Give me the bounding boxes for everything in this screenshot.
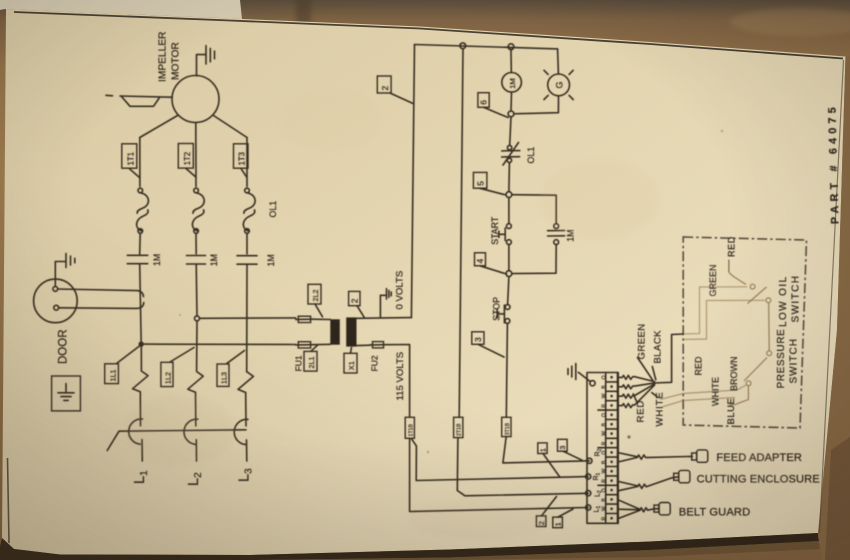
low oil switch LS2 (729, 273, 771, 351)
motor frame ground (197, 46, 215, 76)
bus wire lower to control transformer (144, 343, 296, 345)
transformer T1 secondary winding (346, 317, 356, 346)
printed border top (14, 12, 843, 59)
fuse FU1 upper (296, 316, 313, 322)
wire label 6 (478, 93, 508, 118)
wire pole2 down (195, 264, 198, 316)
wire door switch to line 1 upper (58, 289, 144, 297)
wire label 3T1B (502, 417, 511, 436)
wire start to junction (508, 245, 510, 271)
wire motor T2 lead (195, 123, 197, 187)
wire pole1 bottom (141, 440, 143, 462)
label WHITE wire (652, 392, 666, 427)
connector belt guard (654, 503, 670, 515)
wire pair cutting enclosure (618, 477, 678, 491)
wire label 1L1 (105, 346, 140, 384)
wire label 3 near strip (558, 439, 583, 460)
wire label 1 near R1 (538, 443, 560, 477)
fuse FU2 (370, 342, 386, 348)
pilot lamp G (544, 70, 573, 99)
auxiliary contact 1M (548, 224, 576, 245)
door switch ground (55, 254, 75, 287)
wire label 1T1B (405, 417, 414, 438)
label GREEN (637, 323, 653, 380)
wire green inside enclosure (683, 287, 747, 334)
paper specks (179, 130, 723, 453)
node rail coil tap (508, 44, 514, 50)
wire pole3 down (246, 264, 248, 372)
wire secondary 115V (357, 344, 371, 346)
wire lamp bottom (514, 96, 559, 114)
overload heater OL1 pole 2 (192, 188, 204, 233)
earth ground 0V (380, 289, 391, 318)
wire trio belt guard (618, 500, 659, 519)
wire junction to STOP (508, 277, 509, 305)
wire label 2T1B (454, 417, 463, 437)
disconnect operating linkage (107, 430, 246, 451)
terminal strip TB1 (587, 373, 618, 524)
wire OL1 to start junction (508, 163, 511, 192)
wire (139, 233, 142, 254)
wire label 1L2 (161, 348, 194, 387)
wire label 1T2 (178, 144, 196, 178)
wire pole3 bottom (246, 440, 248, 461)
pushbutton STOP (497, 305, 510, 324)
fuse FU1 lower (296, 342, 313, 348)
wire label 2 near transformer (349, 291, 365, 317)
wire label 1L3 (217, 351, 245, 387)
overload heater OL1 pole 1 (137, 188, 149, 233)
pressure switch enclosure dashed box (683, 237, 806, 428)
wire fuse to primary (313, 318, 331, 320)
wire label 2 top (377, 76, 413, 104)
terminal L1 (586, 505, 591, 510)
wire label 2L2 (308, 284, 323, 317)
contact 1M pole 2 (187, 254, 220, 266)
control rail 0V top (415, 45, 558, 49)
wire 1 to L1 terminal (410, 438, 589, 511)
node junction pole1 bus (139, 341, 144, 346)
wire label 1T3 (234, 144, 249, 178)
pale sheet sliver top-left (0, 0, 242, 19)
printed border left (8, 458, 10, 543)
bottom dark table edge (0, 533, 819, 560)
door interlock switch (34, 279, 78, 323)
wire red pigtail (618, 384, 655, 398)
wire door switch to line 1 lower (59, 303, 144, 309)
wire motor T3 lead (214, 116, 248, 187)
wire 3 to R2 terminal (503, 437, 590, 463)
pushbutton START (499, 198, 511, 245)
terminal strip screws (606, 376, 618, 520)
label RED wire (633, 394, 646, 423)
bus wire upper to control transformer (200, 317, 296, 319)
wire pole2 bottom (195, 440, 197, 461)
disconnect arc pole 3 (234, 419, 248, 444)
wire pair feed adapter (618, 453, 692, 462)
label X1 (344, 348, 357, 374)
label RED low oil (727, 236, 737, 272)
connector feed adapter (692, 450, 708, 462)
terminal strip letters (598, 375, 607, 520)
transformer T1 primary winding (330, 319, 340, 344)
node junction pole2 bus (195, 316, 200, 321)
wire black inside enclosure (683, 300, 765, 339)
right wood beyond paper (818, 56, 850, 560)
wire coil to rail (510, 50, 512, 73)
label BLACK (652, 330, 663, 380)
terminal R2 (587, 458, 592, 463)
wire 2 to L2 terminal (457, 438, 588, 496)
overload contact OL1 (502, 143, 520, 166)
breaker zigzag pole 2 (188, 321, 203, 426)
0V rail vertical (411, 45, 414, 318)
terminal R1 (586, 474, 591, 479)
wire rail to lamp (557, 49, 560, 74)
wood highlight top right (730, 8, 850, 36)
strip ground terminal (568, 364, 595, 386)
wire motor T1 lead (140, 116, 178, 187)
wire white pigtail (618, 385, 655, 408)
paper mottling (125, 90, 790, 540)
contact 1M pole 1 (127, 254, 162, 266)
overload heater OL1 pole 3 (243, 188, 255, 233)
wire label 1 bottom (553, 509, 573, 528)
disconnect arc pole 1 (129, 419, 143, 444)
wire (246, 233, 248, 254)
wire label 5 (473, 172, 506, 195)
wire aux branch bottom (512, 245, 556, 274)
node coil bottom junction (508, 111, 514, 117)
wire (195, 233, 197, 254)
wire 115V to vertical (386, 345, 409, 418)
node rail wire2 tap (460, 43, 466, 49)
printed border right (820, 60, 844, 533)
wire bundle to enclosure (655, 334, 684, 383)
wire secondary 0V (357, 317, 412, 320)
breaker zigzag pole 3 (238, 372, 253, 426)
node stop junction (506, 271, 512, 277)
terminal L2 (586, 491, 591, 496)
label PRESSURE SWITCH (776, 329, 800, 389)
disconnect arc pole 2 (184, 419, 198, 444)
wire black pigtail (618, 383, 655, 389)
wire label 3 (472, 332, 504, 357)
wire 2 drop to terminal strip (459, 49, 463, 418)
wire 3 drop (506, 323, 507, 417)
pressure switch PS1 (730, 351, 772, 405)
wire label 2L1 (304, 345, 318, 371)
coil 1M (502, 73, 522, 93)
node start junction (506, 192, 512, 198)
label IMPELLER MOTOR (158, 32, 182, 82)
impeller motor M1 (172, 76, 219, 123)
wire red white into enclosure (660, 385, 746, 407)
wire 1 branch to R1 terminal (412, 439, 589, 481)
connector cutting enclosure (674, 470, 690, 482)
wood grain streak (296, 0, 311, 30)
wire label 2 bottom (536, 497, 556, 527)
wire coil bottom (510, 92, 513, 111)
wire label 1T1 (122, 144, 140, 178)
chassis ground in box (52, 376, 81, 411)
wire pole1 down (140, 264, 142, 344)
impeller symbol (106, 95, 172, 106)
label LOW OIL SWITCH (778, 275, 802, 327)
wire junction to OL1 contact (510, 117, 511, 146)
wire green pigtail (618, 375, 655, 381)
wire aux branch top (512, 195, 556, 224)
contact 1M pole 3 (237, 254, 276, 266)
breaker zigzag pole 1 (133, 344, 148, 426)
wire label 4 (475, 253, 507, 274)
